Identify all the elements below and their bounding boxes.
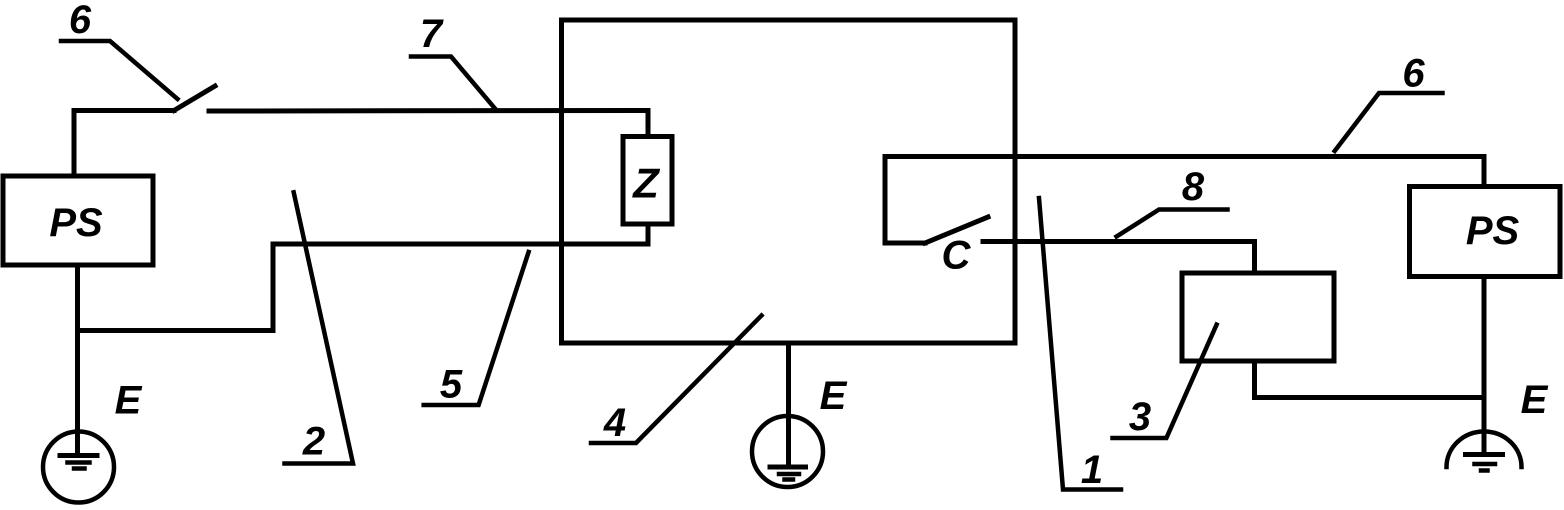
measuring device box 3 [1182, 273, 1334, 361]
wire box 3 bottom to PS2 earth line [1255, 361, 1485, 398]
impedance Z box [623, 137, 672, 225]
ground bars E1 [60, 453, 97, 458]
earth electrode E1 circle (left) [43, 432, 114, 503]
wire switch C to box 3 [983, 242, 1255, 274]
svg-text:6: 6 [69, 0, 92, 42]
earth electrode E3 arc (right) [1447, 432, 1522, 468]
leader line 6 (left) [61, 41, 178, 99]
svg-text:Z: Z [632, 160, 660, 207]
ground bars E3 [1466, 452, 1503, 457]
svg-text:PS: PS [1466, 209, 1520, 253]
earth electrode E2 circle (middle) [752, 416, 823, 487]
svg-text:1: 1 [1081, 448, 1103, 492]
wire PS2 bottom to earth E3 [1482, 277, 1487, 455]
power supply PS1 (left box) [3, 176, 153, 265]
wire switch S1 right contact to Z top [209, 111, 648, 137]
leader line 6 (right) [1335, 93, 1443, 151]
leader line 3 [1113, 325, 1217, 438]
svg-text:C: C [942, 234, 972, 278]
svg-text:4: 4 [603, 401, 626, 445]
leader line 1 [1039, 198, 1121, 490]
switch S1 blade [174, 86, 215, 111]
power supply PS2 (right box) [1410, 187, 1561, 277]
wire internal notch top to PS2 (right) [885, 157, 1484, 187]
switch C blade [925, 217, 988, 243]
svg-text:PS: PS [49, 201, 103, 245]
svg-text:2: 2 [302, 420, 325, 464]
wire box 4 bottom to earth E2 [786, 343, 791, 467]
wire PS1 top to switch S1 left contact [74, 111, 174, 177]
wire notch left side [885, 157, 925, 244]
svg-text:E: E [1521, 378, 1549, 422]
leader line 4 [591, 316, 762, 444]
svg-text:E: E [115, 379, 143, 423]
svg-text:7: 7 [420, 12, 444, 56]
svg-text:5: 5 [440, 363, 463, 407]
svg-text:3: 3 [1129, 395, 1151, 439]
leader line 2 [285, 192, 354, 463]
leader line 7 [411, 57, 495, 109]
svg-text:8: 8 [1182, 165, 1205, 209]
wire Z bottom to junction and PS1 ground branch [78, 224, 649, 331]
ground bars E2 [770, 465, 806, 470]
leader line 5 [424, 252, 529, 405]
svg-text:E: E [820, 374, 848, 418]
equipment under test box 4 [562, 20, 1016, 343]
leader line 8 [1117, 210, 1228, 237]
svg-text:6: 6 [1402, 52, 1425, 96]
wire PS1 bottom to earth [75, 265, 80, 455]
